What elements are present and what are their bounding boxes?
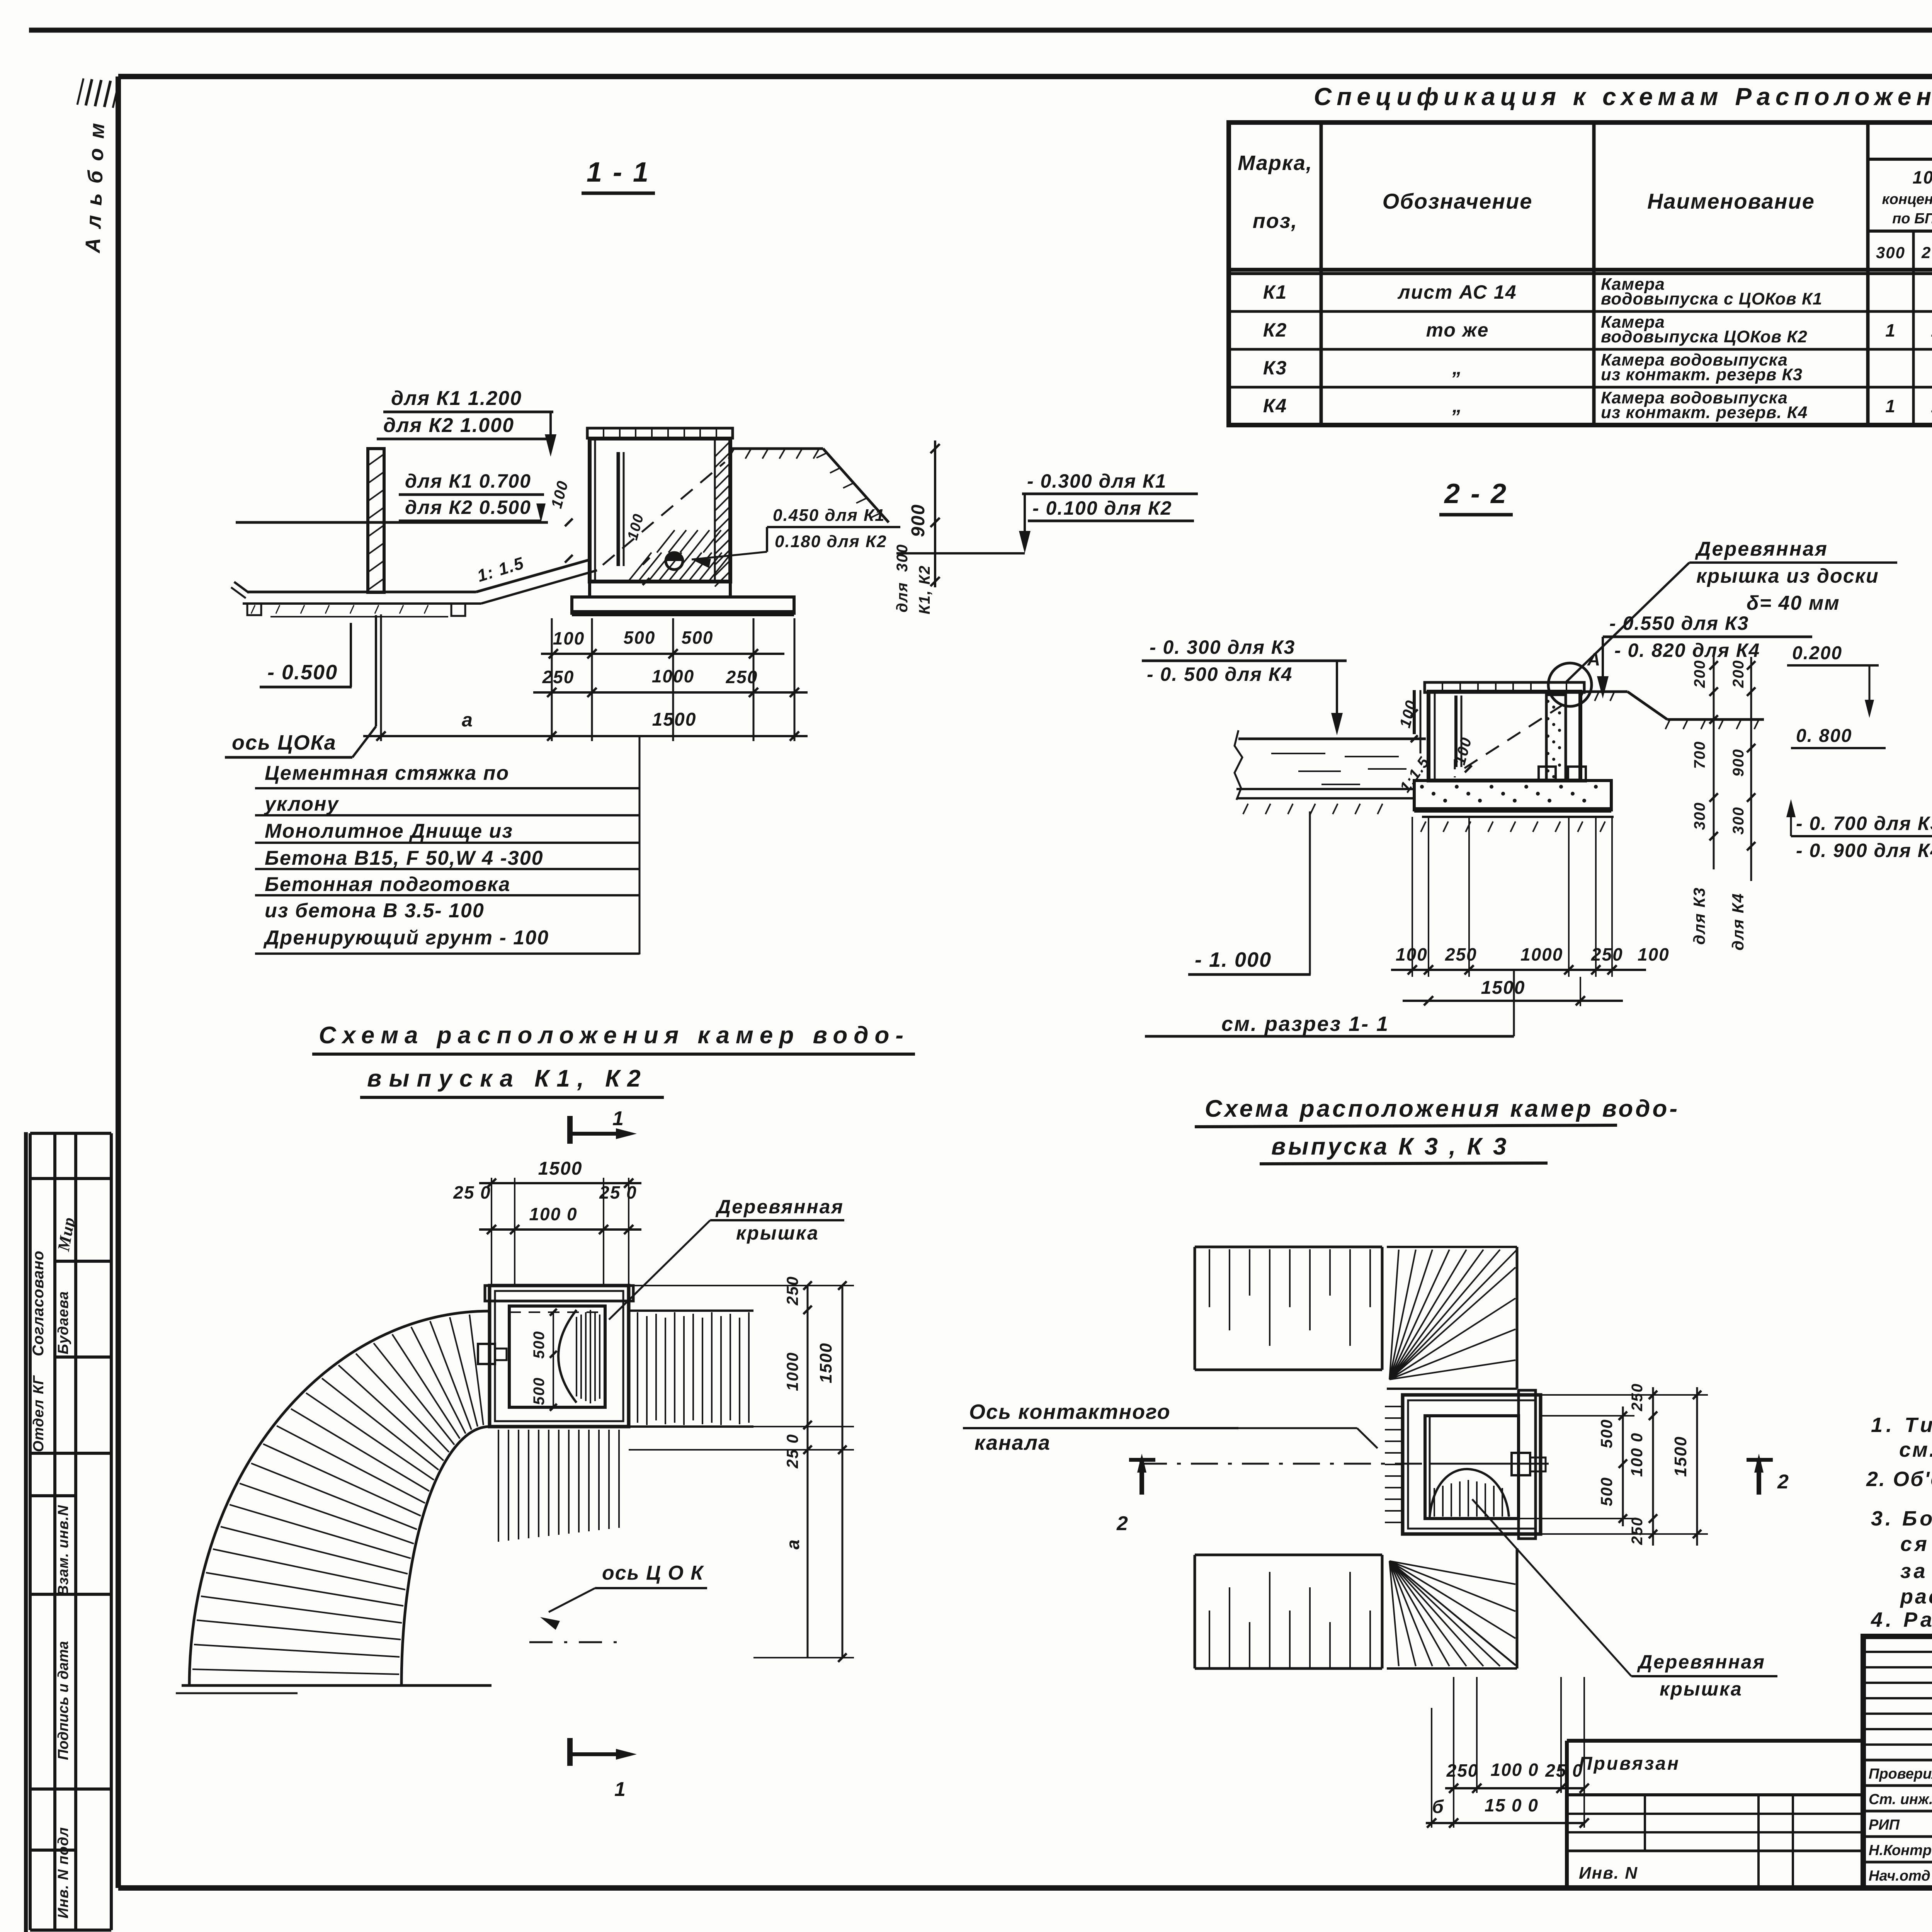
svg-text:- 0. 700 для К3: - 0. 700 для К3 <box>1796 813 1932 834</box>
2-2 left wall board <box>1413 690 1416 734</box>
svg-text:0.180 для К2: 0.180 для К2 <box>775 532 887 551</box>
svg-text:100 0: 100 0 <box>529 1204 577 1224</box>
title block outer <box>1863 1636 1932 1888</box>
svg-text:Будаева: Будаева <box>55 1291 71 1354</box>
svg-text:250: 250 <box>542 667 575 687</box>
svg-text:Марка,: Марка, <box>1238 151 1313 175</box>
svg-text:a: a <box>783 1539 803 1549</box>
svg-text:для К1 0.700: для К1 0.700 <box>405 470 531 492</box>
svg-text:2 - 2: 2 - 2 <box>1444 478 1508 509</box>
svg-text:900: 900 <box>1730 748 1747 777</box>
svg-text:2: 2 <box>1777 1471 1789 1493</box>
svg-text:К4: К4 <box>1263 395 1287 417</box>
1-1 notes leader vertical <box>639 736 641 954</box>
1-1 chamber walls <box>590 439 730 582</box>
svg-text:δ= 40 мм: δ= 40 мм <box>1747 592 1840 614</box>
svg-text:Дренирующий грунт - 100: Дренирующий грунт - 100 <box>263 927 549 949</box>
svg-text:250: 250 <box>1446 1760 1479 1781</box>
K1K2 cut mark 1 bottom <box>567 1738 573 1766</box>
K3 lower left band <box>1195 1554 1382 1556</box>
svg-text:250: 250 <box>1629 1517 1646 1545</box>
svg-text:0.450 для К1: 0.450 для К1 <box>773 506 885 525</box>
1-1 wooden cover <box>587 428 733 438</box>
svg-text:- 0.100 для К2: - 0.100 для К2 <box>1032 497 1172 519</box>
inner frame <box>118 74 1932 79</box>
K3 lower fan block <box>1516 1548 1519 1668</box>
svg-text:водовыпуска с ЦОКов К1: водовыпуска с ЦОКов К1 <box>1601 289 1823 308</box>
svg-text:100: 100 <box>1638 944 1670 964</box>
K1K2 ext horizontals <box>629 1285 854 1286</box>
K3 chamber <box>1403 1395 1541 1534</box>
svg-text:Проверил: Проверил <box>1869 1766 1932 1782</box>
svg-text:для К4: для К4 <box>1729 893 1747 951</box>
spec table outer <box>1229 122 1932 425</box>
svg-text:1. Тип крепления откосов: 1. Тип крепления откосов и дно канала <box>1871 1413 1932 1437</box>
svg-text:100 0: 100 0 <box>1490 1760 1539 1780</box>
svg-text:1500: 1500 <box>1481 978 1526 998</box>
svg-text:концентрация: концентрация <box>1882 191 1932 207</box>
svg-text:Ст. инж.: Ст. инж. <box>1869 1791 1932 1808</box>
svg-text:ось ЦОКа: ось ЦОКа <box>232 731 337 754</box>
K3 ladder ticks left <box>1385 1406 1401 1407</box>
svg-text:200: 200 <box>1691 660 1708 688</box>
K1K2 dim chain right A <box>807 1286 809 1658</box>
svg-text:500: 500 <box>1597 1477 1616 1506</box>
svg-text:Согласовано: Согласовано <box>30 1250 47 1356</box>
svg-text:1500: 1500 <box>816 1342 835 1383</box>
svg-text:из бетона В 3.5- 100: из бетона В 3.5- 100 <box>265 900 485 922</box>
svg-text:см. лист АС-12 .: см. лист АС-12 . <box>1899 1438 1932 1461</box>
1-1 dashed diagonal <box>603 462 725 565</box>
svg-text:Отдел: Отдел <box>31 1399 47 1452</box>
1-1 interior hatch lower right <box>629 553 651 580</box>
1-1 dim 900 vertical <box>934 440 936 587</box>
svg-text:Спецификация к схемам Расп: Спецификация к схемам Расположения камер… <box>1314 83 1932 111</box>
svg-text:250: 250 <box>1445 944 1477 964</box>
K1K2 radial hatch <box>192 1669 399 1674</box>
svg-text:Инв. N: Инв. N <box>1579 1864 1638 1883</box>
svg-text:Бетонная подготовка: Бетонная подготовка <box>265 873 510 896</box>
svg-text:выпуска К 3 , К 3: выпуска К 3 , К 3 <box>1271 1133 1509 1160</box>
svg-text:Инв. N подл: Инв. N подл <box>55 1827 71 1918</box>
svg-text:25 0: 25 0 <box>599 1182 637 1202</box>
svg-text:из контакт. резерв К3: из контакт. резерв К3 <box>1601 365 1803 384</box>
svg-text:2: 2 <box>1116 1512 1129 1535</box>
svg-text:1: 1 <box>612 1107 624 1130</box>
K1K2 cover arc and boards <box>558 1310 577 1403</box>
svg-text:крышка: крышка <box>1660 1678 1743 1700</box>
K1K2 inner arc <box>401 1427 490 1685</box>
2-2 break line <box>1235 730 1242 800</box>
K1K2 bottom line <box>182 1684 492 1687</box>
2-2 chamber walls <box>1429 692 1580 781</box>
2-2 wooden cover <box>1425 682 1584 692</box>
K3 dim chains right <box>1622 1406 1624 1526</box>
title block thin rows <box>1863 1651 1932 1653</box>
K3 ext horizontals right <box>1541 1394 1708 1396</box>
svg-text:- 0. 300 для К3: - 0. 300 для К3 <box>1150 636 1295 658</box>
K1K2 inner opening <box>509 1306 605 1407</box>
svg-text:0. 800: 0. 800 <box>1796 726 1852 746</box>
svg-text:крышка из доски: крышка из доски <box>1696 565 1879 587</box>
svg-text:500: 500 <box>531 1331 548 1359</box>
svg-text:„: „ <box>1452 357 1463 379</box>
svg-text:300: 300 <box>894 544 911 572</box>
svg-text:ось Ц О К: ось Ц О К <box>602 1562 704 1584</box>
svg-text:для: для <box>894 582 911 612</box>
svg-text:- 1. 000: - 1. 000 <box>1195 948 1272 971</box>
K1K2 right band verticals <box>629 1310 753 1312</box>
svg-text:500: 500 <box>624 628 656 648</box>
svg-text:для К3: для К3 <box>1690 887 1708 945</box>
2-2 wall pads <box>1539 767 1556 781</box>
svg-text:500: 500 <box>531 1377 548 1405</box>
outer border top <box>29 28 1932 33</box>
svg-text:1: 1 <box>1885 396 1896 416</box>
svg-text:Деревянная: Деревянная <box>1695 538 1828 560</box>
svg-text:4. Размеры а, б, см. на: 4. Размеры а, б, см. на схемах расположе… <box>1871 1608 1932 1631</box>
K1K2 cut mark 1 top <box>567 1116 573 1144</box>
svg-text:25 0: 25 0 <box>1545 1760 1583 1781</box>
svg-text:РИП: РИП <box>1869 1817 1900 1833</box>
svg-text:Нач.отд: Нач.отд <box>1869 1868 1930 1884</box>
svg-text:200: 200 <box>1921 243 1932 262</box>
svg-text:a: a <box>462 709 473 731</box>
1-1 floor slab <box>572 597 794 613</box>
2-2 inner wall <box>1454 696 1458 767</box>
svg-text:Обозначение: Обозначение <box>1383 189 1533 213</box>
svg-text:Бетона В15, F 50,W 4 -300: Бетона В15, F 50,W 4 -300 <box>265 847 544 869</box>
svg-text:- 0.550 для К3: - 0.550 для К3 <box>1609 612 1749 634</box>
svg-text:1500: 1500 <box>538 1158 583 1179</box>
svg-text:К3: К3 <box>1263 357 1287 379</box>
svg-text:Взам. инв.N: Взам. инв.N <box>55 1505 71 1596</box>
svg-text:100 0: 100 0 <box>1628 1432 1646 1477</box>
svg-text:Привязан: Привязан <box>1579 1753 1680 1774</box>
1-1 right wall hatch <box>715 441 730 457</box>
K1K2 below chamber verticals <box>498 1430 499 1542</box>
svg-text:0.200: 0.200 <box>1792 643 1842 663</box>
svg-text:250: 250 <box>783 1276 801 1306</box>
K1K2 chamber plan <box>490 1286 629 1427</box>
svg-text:К1: К1 <box>1263 281 1287 303</box>
1-1 ground line left <box>236 521 548 524</box>
svg-text:К1, К2: К1, К2 <box>916 565 933 614</box>
2-2 ground right <box>1580 690 1628 693</box>
svg-text:25 0: 25 0 <box>453 1182 491 1202</box>
svg-text:- 0. 820 для К4: - 0. 820 для К4 <box>1614 639 1760 661</box>
svg-text:Н.Контр.: Н.Контр. <box>1869 1842 1932 1859</box>
svg-text:КГ: КГ <box>31 1375 47 1394</box>
svg-text:Деревянная: Деревянная <box>715 1196 844 1218</box>
svg-text:250: 250 <box>1629 1383 1646 1412</box>
K3 chamber right bar <box>1519 1390 1536 1539</box>
1-1 dim 300 rotated <box>930 518 940 527</box>
1-1 ground right <box>730 447 823 450</box>
svg-text:лист АС 14: лист АС 14 <box>1397 281 1517 303</box>
privyazan box <box>1567 1739 1863 1743</box>
svg-text:500: 500 <box>1597 1419 1616 1448</box>
svg-text:- 0. 900 для К4: - 0. 900 для К4 <box>1796 840 1932 861</box>
svg-text:- 0. 500 для К4: - 0. 500 для К4 <box>1147 663 1293 685</box>
outer border left lower segment <box>24 1132 28 1932</box>
2-2 concrete right wall <box>1546 695 1566 781</box>
svg-text:К2: К2 <box>1263 319 1287 341</box>
svg-text:ся с грунтом, обмазать го: ся с грунтом, обмазать горячим битумом <box>1900 1532 1932 1556</box>
2-2 detail circle A <box>1548 663 1592 706</box>
svg-text:15 0 0: 15 0 0 <box>1485 1795 1539 1815</box>
left margin strip table <box>29 1133 32 1930</box>
1-1 drain hole <box>666 553 683 570</box>
K1K2 curved channel outer arc <box>189 1311 490 1685</box>
K3 latch right <box>1430 1463 1549 1465</box>
svg-text:1000: 1000 <box>783 1352 801 1391</box>
K1K2 chamber top bar <box>485 1286 633 1301</box>
K3 upper left band <box>1195 1246 1382 1248</box>
svg-text:для К2 0.500: для К2 0.500 <box>405 497 531 518</box>
svg-text:- 0.500: - 0.500 <box>267 661 338 684</box>
svg-text:300: 300 <box>1876 243 1905 262</box>
svg-text:1: 1 <box>614 1778 626 1801</box>
K1K2 axis dash mark <box>529 1641 618 1643</box>
svg-text:см. разрез 1- 1: см. разрез 1- 1 <box>1221 1012 1389 1036</box>
svg-text:1500: 1500 <box>652 709 697 730</box>
svg-text:для К2 1.000: для К2 1.000 <box>383 414 514 437</box>
svg-text:уклону: уклону <box>264 793 339 815</box>
1-1 left retaining wall <box>368 449 384 592</box>
svg-text:растворенного в бензине.: растворенного в бензине. <box>1900 1585 1932 1608</box>
2-2 soil hatch bottom <box>1243 804 1248 814</box>
2-2 dim chain right x4532 <box>1750 657 1752 881</box>
1-1 extension lines <box>380 614 382 741</box>
svg-text:3. Боковые поверхностц ка: 3. Боковые поверхностц камер, соприкасаю… <box>1871 1507 1932 1530</box>
svg-text:Деревянная: Деревянная <box>1637 1651 1765 1673</box>
svg-text:100: 100 <box>553 628 585 648</box>
svg-text:Схема расположения камер: Схема расположения камер водо- <box>1205 1095 1680 1122</box>
svg-text:крышка: крышка <box>736 1222 819 1244</box>
svg-text:300: 300 <box>1730 806 1747 835</box>
svg-text:за два раза по огрунто: за два раза по огрунтовке из битума, <box>1900 1560 1932 1583</box>
svg-text:из контакт. резерв. К: из контакт. резерв. К4 <box>1601 403 1808 422</box>
svg-text:300: 300 <box>1691 802 1708 830</box>
svg-text:А л ь б о м: А л ь б о м <box>81 121 109 254</box>
privyazan grid <box>1567 1813 1863 1815</box>
svg-text:„: „ <box>1452 395 1463 417</box>
svg-text:100: 100 <box>1913 167 1932 187</box>
svg-text:по БПК мг/л: по БПК мг/л <box>1892 211 1932 227</box>
2-2 dashed diagonal <box>1464 704 1564 768</box>
2-2 water channel <box>1238 738 1426 740</box>
svg-text:- 0.300 для К1: - 0.300 для К1 <box>1027 470 1167 492</box>
1-1 channel bottom left <box>247 591 476 594</box>
title block signature rows <box>1863 1759 1932 1762</box>
svg-text:1 - 1: 1 - 1 <box>587 157 650 188</box>
K1K2 latch <box>478 1344 495 1364</box>
svg-text:б: б <box>1432 1797 1444 1817</box>
K3 cover dome and boards <box>1430 1469 1509 1517</box>
svg-text:поз,: поз, <box>1253 209 1298 233</box>
svg-text:Цементная стяжка по: Цементная стяжка по <box>265 762 509 784</box>
svg-text:2. Об'ем древесины на: 2. Об'ем древесины на крышку - 0. 1 м <box>1866 1468 1932 1491</box>
svg-text:для К1 1.200: для К1 1.200 <box>391 387 522 410</box>
svg-text:200: 200 <box>1730 660 1747 688</box>
svg-text:700: 700 <box>1691 741 1708 769</box>
svg-text:1: 1 <box>1885 320 1896 340</box>
svg-text:канала: канала <box>975 1431 1051 1454</box>
2-2 dim chain left x4435 <box>1713 657 1715 869</box>
svg-text:водовыпуска ЦОКов К2: водовыпуска ЦОКов К2 <box>1601 327 1808 346</box>
svg-text:Ось контактного: Ось контактного <box>969 1400 1171 1423</box>
K1K2 dim chain right B <box>842 1286 844 1658</box>
svg-text:выпуска К1, К2: выпуска К1, К2 <box>367 1065 648 1092</box>
svg-text:500: 500 <box>682 628 714 648</box>
svg-text:то же: то же <box>1426 319 1489 341</box>
2-2 channel bottom slab <box>1236 788 1415 790</box>
2-2 base slab <box>1414 781 1611 810</box>
svg-text:Схема расположения камер: Схема расположения камер водо- <box>319 1022 910 1049</box>
svg-text:Подпись и дата: Подпись и дата <box>55 1641 71 1760</box>
svg-text:Наименование: Наименование <box>1647 189 1815 213</box>
svg-text:1500: 1500 <box>1671 1436 1690 1477</box>
K3 cut mark 2 right <box>1757 1460 1761 1495</box>
svg-text:25 0: 25 0 <box>783 1434 801 1469</box>
svg-text:Монолитное Днище из: Монолитное Днище из <box>265 820 513 842</box>
1-1 inner gate wall <box>617 452 620 566</box>
spec table header lines <box>1229 268 1932 272</box>
K3 cut mark 2 left <box>1139 1460 1144 1495</box>
K3 axis line <box>1140 1463 1484 1465</box>
svg-text:900: 900 <box>908 504 929 537</box>
K3 upper fan block <box>1387 1246 1517 1248</box>
K3 inner opening <box>1425 1416 1519 1519</box>
svg-text:1000: 1000 <box>1520 944 1563 964</box>
